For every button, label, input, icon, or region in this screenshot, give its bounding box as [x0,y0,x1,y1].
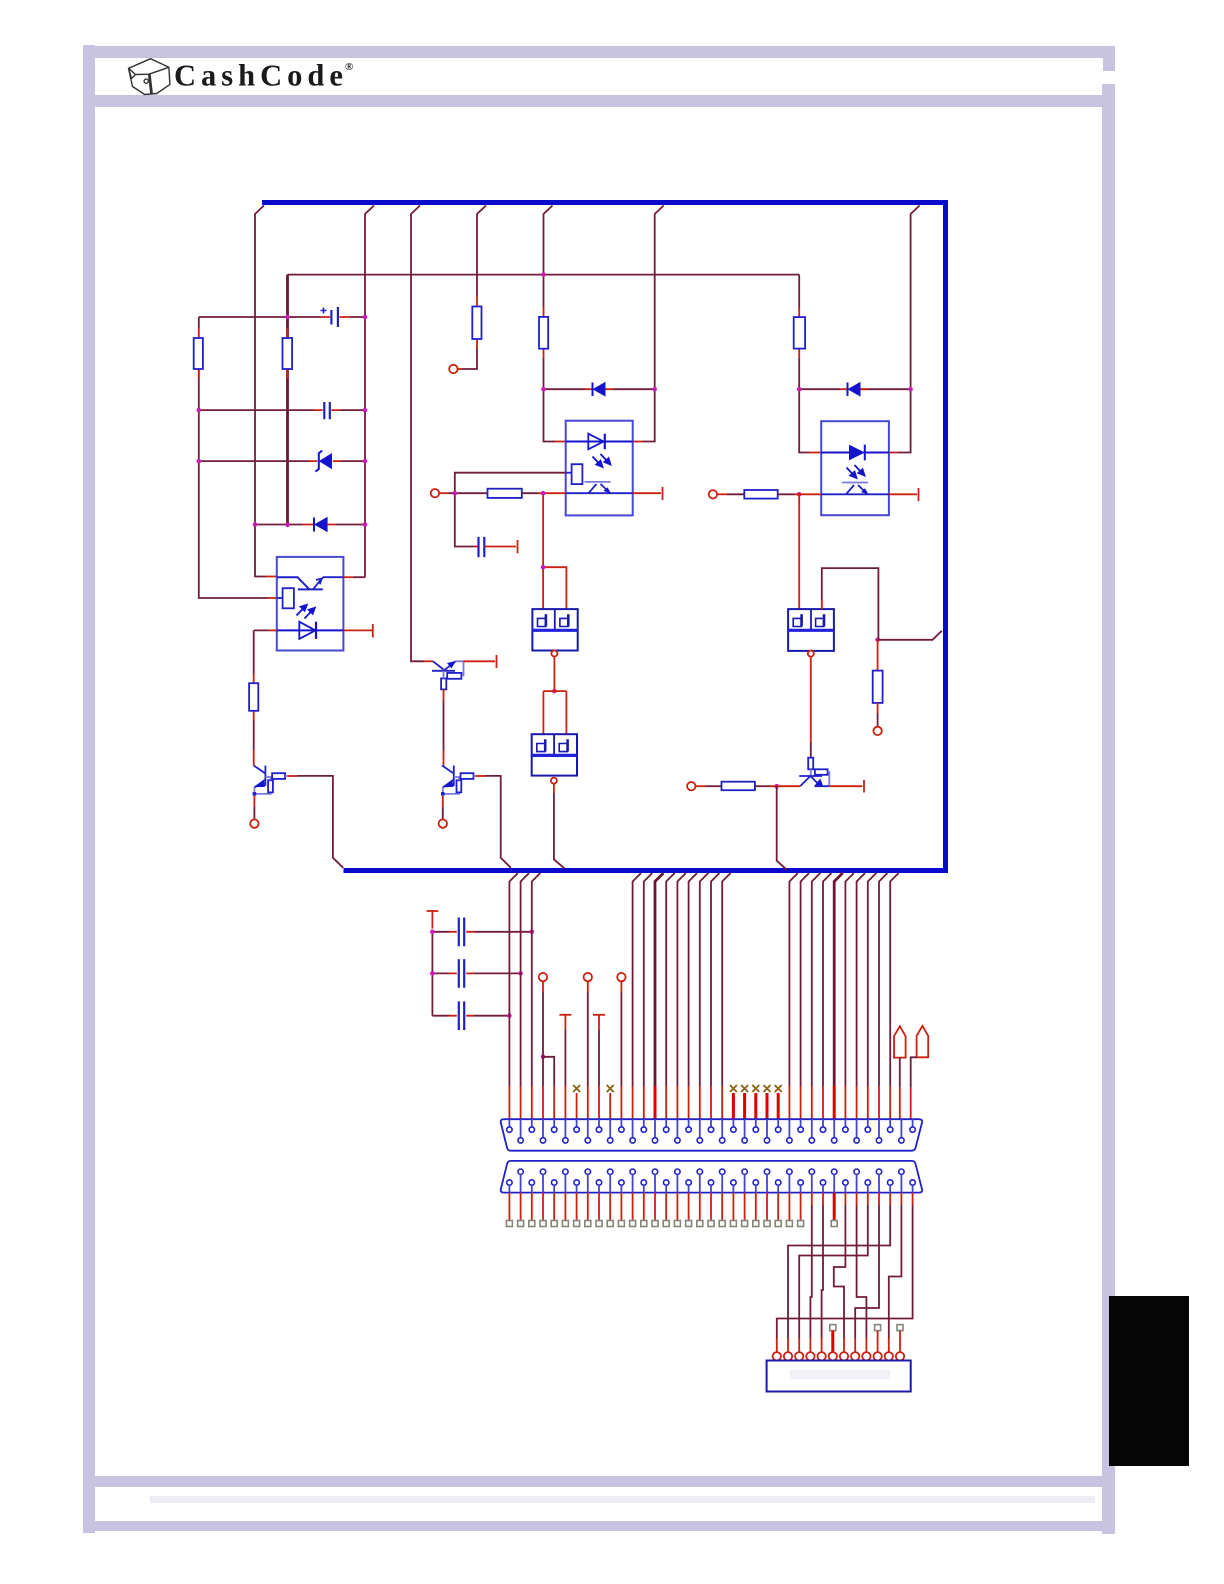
page frame band under logo [95,95,1103,107]
resistor R6 [249,683,258,711]
U3 phototransistor [842,482,868,484]
wire bus column k18 [711,873,720,1086]
wire P3 right pin loop [821,600,823,609]
wire U3 output terminal [889,488,919,501]
no-connect X k20 [730,1085,737,1092]
wire Q4 base [696,785,707,787]
terminal T k8 [593,1014,605,1016]
capacitor C1 polarized [321,307,338,327]
resistor R8 [488,489,522,498]
wire Q1 emitter to terminal [253,796,255,807]
wire bus column k15 [677,873,686,1086]
transistor Q3 [441,766,476,796]
opto-coupler U1 box [277,557,344,651]
wire Q4 emitter terminal [829,780,864,793]
wire H6 y=389.2 right [799,388,910,390]
no-connect X k21 [741,1085,748,1092]
U1 cathode terminal [343,624,372,638]
page frame top band [83,46,1115,58]
wire U1 anode to rail [269,629,277,631]
wire bus column k34 [890,873,899,1086]
terminal circle V4 [449,365,457,373]
terminal circle P2 [551,778,557,784]
wire bus column k2 [532,873,541,1086]
wire U2 input [439,492,449,494]
wire H3 y=461.1 [199,460,365,462]
dual diode package P1 [532,609,577,650]
junction dots upper section [197,272,913,527]
wire mesh N5 [822,1193,824,1205]
U1 phototransistor [277,577,344,589]
wire U3 input [717,493,727,495]
wire P2 to shield [553,784,555,793]
U1 internal resistor [283,588,294,608]
wire mesh N8 [878,1193,880,1205]
pad square m11 [897,1325,903,1331]
wire bus column k33 [879,873,888,1086]
connector J2 pins top row [518,1169,904,1193]
wire left rail x=198.8 [199,317,268,598]
U1 light arrows [297,605,315,619]
resistor R1 [194,338,203,369]
resistor R7 [873,671,883,703]
U2 internal resistor [572,464,583,484]
wire bus column k28 [823,873,832,1086]
resistor R9 [744,490,777,499]
terminal circle R7 [873,727,881,735]
wire V6 x=654.7 [643,206,664,442]
wire bus column k25 [789,873,798,1086]
wire bus column k13 [655,873,664,1086]
diode D4 [847,383,849,397]
svg-text:CashCode: CashCode [174,59,348,93]
wire mesh N2 [889,1193,891,1205]
junction dots cap bank [430,930,545,1060]
connector J1 shell [501,1119,922,1151]
transistor Q2 [432,661,464,689]
wire V4 x=477 [477,206,486,297]
page frame left bar [83,45,95,1533]
wire bus column k12 [644,873,653,1086]
terminal T cap rail [427,910,439,912]
U2 light arrows [593,454,611,467]
dual diode package P3 [788,609,834,651]
wire U2 output terminal [633,487,663,500]
wire H1 y=317 [199,316,365,318]
wire U2 node down [543,493,566,609]
wire Q1 base to shield [287,775,297,777]
wire C3 to terminal [484,540,517,553]
resistor R5 [794,317,805,349]
junction dots mid section [453,491,880,789]
svg-text:®: ® [345,61,353,73]
terminal circle Q4 base [687,782,695,790]
wire H2 y=410.1 [199,409,365,411]
wire V7 x=910.6 [898,206,920,453]
wire bus column k14 [666,873,675,1086]
wire bus column k16 [689,873,698,1086]
U3 light arrows [847,465,865,478]
wire bus column k19 [722,873,731,1086]
dual diode package P2 [532,734,577,775]
wire mesh N1 [912,1193,914,1205]
capacitor C2 [324,402,330,419]
pad square m5 [830,1325,836,1331]
wire bus column k17 [700,873,709,1086]
resistor R3 [472,307,481,340]
no-connect X k24 [775,1085,782,1092]
wire P3 to Q4 [810,657,812,742]
page frame right bar [1102,84,1115,1534]
wire bus column k30 [845,873,854,1086]
page frame bottom band 1 [95,1476,1103,1487]
wire k3/k4 [542,981,544,992]
capacitor C6 [432,1015,449,1017]
wire P1 to node [553,657,555,692]
wire to R7 [877,640,879,671]
wire cap rail [431,932,433,1016]
U1 LED [277,629,344,631]
terminal T k5 [559,1014,571,1016]
page frame bottom band 2 [95,1521,1103,1531]
wire Q2 base down [443,689,445,700]
U2 phototransistor [585,481,611,483]
wire bus column k27 [812,873,821,1086]
capacitor C3 [479,537,485,557]
net flag F1 [894,1026,906,1057]
resistor R10 [722,782,755,791]
connector J1 pins bottom row [518,1119,904,1143]
opto-coupler U2 box [566,421,633,516]
wire mesh N4 [811,1193,813,1205]
no-connect X k22 [752,1085,759,1092]
zener diode D1 [315,451,322,472]
transistor Q4 [799,758,829,787]
wire Q3 base to shield [476,775,485,777]
diode D3 [592,383,594,397]
wire V2 x=365 [365,206,374,578]
no-connect X k9 [607,1085,614,1092]
connector J3 body [767,1361,911,1392]
shield boundary blue box [262,203,946,871]
resistor R4 [539,317,548,349]
wire mesh N6 [844,1193,846,1205]
page frame header tab right [1103,46,1115,71]
pad squares row [506,1193,837,1227]
diode D2 [313,518,315,532]
wire bus column k0 [509,873,518,1086]
net flag F2 [917,1026,929,1057]
wire U2 base loop [455,473,566,547]
CashCode logo icon [129,59,170,95]
wire Q4 node to shield [777,786,787,870]
terminal circle U2 input [431,489,439,497]
terminal circle P3 [808,651,814,657]
transistor Q1 [253,766,288,796]
wire V1 x=255 [255,206,266,577]
wire H4 y=524.5 [255,524,365,526]
terminal circle P1 [551,651,557,657]
terminal circle k3 [539,973,547,981]
terminal circle Q1 [250,819,258,827]
wire V3 x=411 [411,206,424,662]
wire mesh N9 [900,1193,902,1205]
terminal circle k10 [617,973,625,981]
connector J2 pins bottom row [507,1180,916,1193]
U3 LED [821,452,889,454]
wire U1 collector to V2 [343,576,353,578]
pad square m9 [875,1325,881,1331]
capacitor C5 [432,972,449,974]
wire V5 x=543.5 [544,206,553,308]
opto-coupler U3 box [821,421,889,515]
wire bus column k11 [633,873,642,1086]
wire bus column k32 [868,873,877,1086]
connector J2 shell [501,1161,922,1193]
resistor R2 [283,338,293,369]
no-connect X k6 [573,1085,580,1092]
connector J3 faint label [790,1370,890,1379]
wire shield tap [878,631,942,640]
wire node to P2 pins [543,691,566,734]
terminal circle Q3 [439,819,447,827]
wire V9 x=799.2 [798,275,800,308]
U2 LED [566,441,633,443]
terminal circle U3 input [709,490,717,498]
wire Q2 collector out [464,655,497,668]
wire bus column k29 [834,873,843,1086]
wire V8 x=287.5 thick [286,275,289,525]
footer faint text [150,1496,1095,1503]
wire bus column k1 [521,873,530,1086]
wire mesh N7 [856,1193,858,1205]
no-connect X k23 [764,1085,771,1092]
wire bus horizontal y=274.6 [288,274,800,276]
connector J3 pin circles [773,1352,905,1360]
connector J1 pins top row [507,1119,916,1132]
wire H5 y=389.2 left [544,388,655,390]
capacitor C4 [432,931,449,933]
wire bus column k31 [857,873,866,1086]
terminal circle k7 [584,973,592,981]
wire mesh N3 [867,1193,869,1205]
wire bus column k26 [801,873,810,1086]
black square bottom right [1109,1296,1189,1466]
wire Q3 emitter to terminal [442,796,444,807]
wire V9 lower to package [798,494,800,609]
